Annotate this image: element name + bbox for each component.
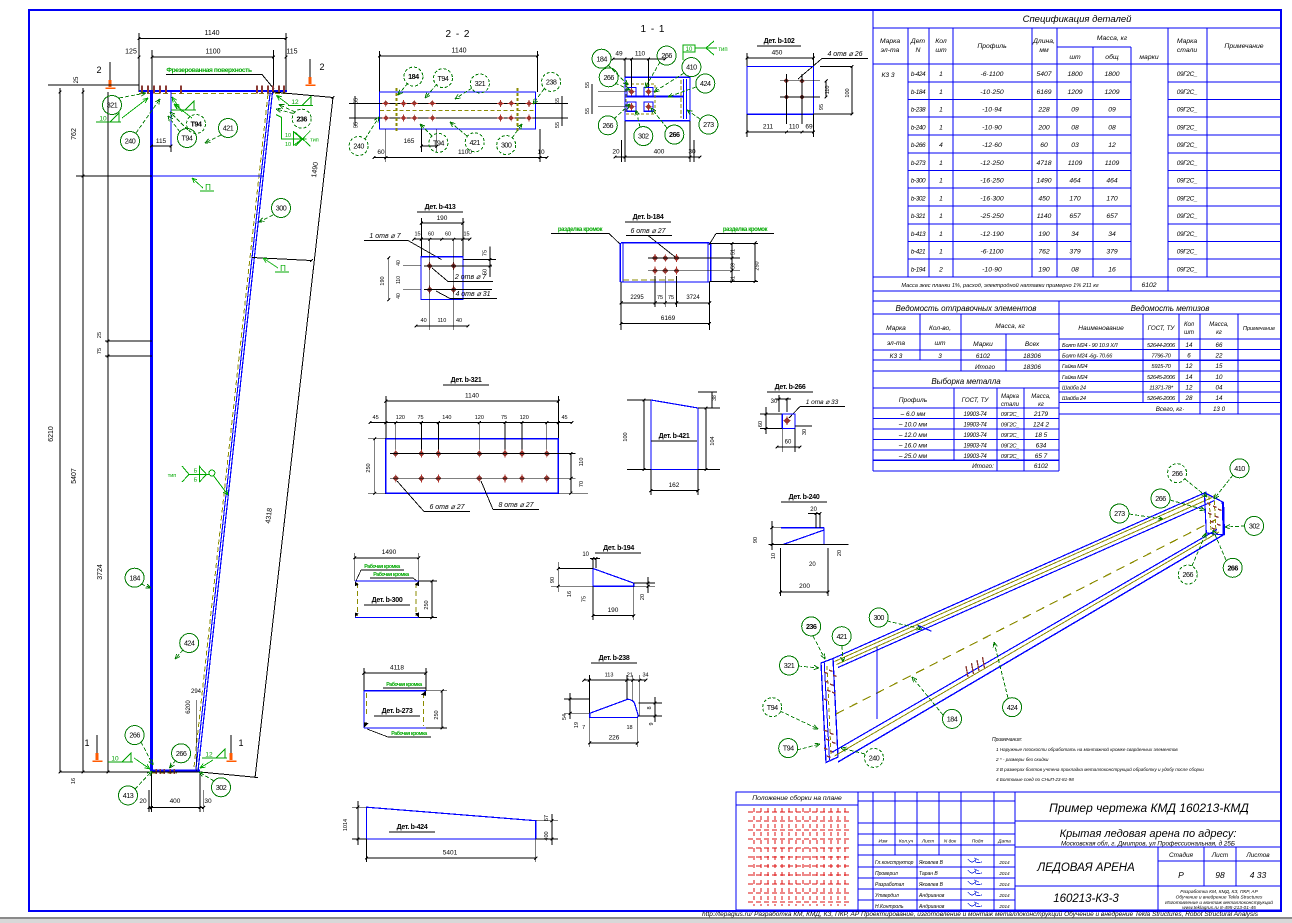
svg-text:2179: 2179 — [1033, 411, 1049, 418]
section 2-2 dim 1140 — [380, 55, 538, 57]
detail b-273 dim 4118 — [364, 672, 426, 674]
svg-text:Примечание: Примечание — [1243, 326, 1275, 332]
detail b-413 right dims 75/50 — [463, 259, 496, 261]
svg-text:184: 184 — [947, 715, 958, 724]
svg-text:1109: 1109 — [1105, 160, 1120, 167]
section 1-1 left 55/55 dims — [598, 91, 625, 93]
svg-text:09Г2С_: 09Г2С_ — [1177, 249, 1198, 256]
svg-text:09Г2С_: 09Г2С_ — [1001, 412, 1020, 418]
svg-text:4718: 4718 — [1036, 160, 1051, 167]
svg-text:110: 110 — [396, 276, 402, 284]
isometric callout 300 — [869, 608, 888, 627]
column callout 266 lower-mid — [172, 744, 191, 763]
svg-text:разделка кромок: разделка кромок — [558, 227, 603, 233]
svg-text:Обучение и внедрение Tekla S: Обучение и внедрение Tekla Structures — [1176, 895, 1263, 901]
svg-text:Фрезерованная поверхность: Фрезерованная поверхность — [166, 67, 252, 74]
svg-text:– 25.0 мм: – 25.0 мм — [898, 453, 928, 460]
svg-text:Подп: Подп — [972, 839, 984, 845]
stiffener extension to 1490 dim — [252, 258, 312, 261]
svg-text:Масса, кг: Масса, кг — [995, 323, 1025, 330]
svg-text:1: 1 — [939, 231, 943, 238]
svg-text:20: 20 — [612, 149, 620, 156]
svg-text:6169: 6169 — [1036, 89, 1051, 96]
svg-text:b-321: b-321 — [911, 213, 926, 220]
svg-text:Московская обл, г. Дмитров, ул: Московская обл, г. Дмитров, ул Профессио… — [1061, 840, 1235, 848]
svg-text:Спецификация деталей: Спецификация деталей — [1023, 14, 1133, 25]
svg-text:1800: 1800 — [1067, 71, 1082, 78]
svg-text:294: 294 — [191, 689, 202, 695]
svg-text:стали: стали — [1001, 402, 1020, 408]
svg-text:Дет. b-413: Дет. b-413 — [425, 204, 456, 211]
svg-text:Гл.конструктор: Гл.конструктор — [875, 860, 914, 866]
svg-text:6 отв ⌀ 27: 6 отв ⌀ 27 — [429, 504, 465, 511]
svg-text:300: 300 — [501, 141, 512, 150]
svg-text:Разработка КМ, КМД, КЗ, ПКР, А: Разработка КМ, КМД, КЗ, ПКР, АР — [1180, 889, 1258, 895]
upper stiffener line — [76, 175, 152, 177]
svg-text:266: 266 — [603, 121, 614, 130]
svg-text:шт: шт — [1069, 54, 1081, 61]
svg-text:21: 21 — [627, 673, 633, 679]
svg-text:400: 400 — [544, 831, 550, 840]
detail b-184 bolts — [652, 255, 658, 261]
svg-text:11371-78*: 11371-78* — [1149, 385, 1174, 391]
isometric right callouts — [1168, 464, 1187, 483]
svg-text:300: 300 — [276, 204, 287, 213]
column callout 240 — [121, 132, 140, 151]
svg-text:1: 1 — [84, 738, 89, 748]
svg-text:шт: шт — [935, 47, 947, 54]
svg-text:200: 200 — [799, 583, 810, 590]
svg-text:Стадия: Стадия — [1169, 851, 1194, 859]
svg-text:104: 104 — [710, 436, 716, 445]
svg-text:1: 1 — [939, 160, 943, 167]
svg-text:Дет. b-321: Дет. b-321 — [451, 377, 482, 384]
svg-text:6 отв ⌀ 27: 6 отв ⌀ 27 — [630, 228, 666, 235]
svg-text:-12·250: -12·250 — [980, 160, 1004, 167]
svg-text:Разработал: Разработал — [875, 882, 904, 888]
table Ведомость отправочных элементов — [873, 291, 1281, 471]
svg-text:162: 162 — [669, 482, 680, 489]
svg-text:55: 55 — [555, 122, 561, 128]
svg-text:70: 70 — [579, 481, 585, 487]
svg-text:200: 200 — [1037, 124, 1050, 131]
svg-text:34: 34 — [642, 673, 648, 679]
svg-text:266: 266 — [1155, 494, 1166, 503]
svg-text:3 В размерах болтов учтена пр: 3 В размерах болтов учтена прокладка мет… — [996, 766, 1204, 772]
base plate — [152, 770, 201, 772]
svg-text:b-421: b-421 — [911, 249, 926, 256]
svg-text:Шайба 24: Шайба 24 — [1062, 395, 1086, 402]
svg-text:228: 228 — [1037, 107, 1050, 114]
svg-text:09Г2С_: 09Г2С_ — [1177, 71, 1198, 78]
svg-text:1: 1 — [939, 178, 943, 185]
svg-text:55: 55 — [354, 122, 360, 128]
svg-text:184: 184 — [408, 72, 419, 81]
svg-text:– 6.0 мм: – 6.0 мм — [900, 411, 926, 418]
svg-text:59: 59 — [731, 263, 737, 269]
detail b-300 dim 250 — [431, 581, 433, 618]
detail b-266 dims — [760, 413, 782, 415]
svg-text:6102: 6102 — [1141, 282, 1156, 289]
svg-text:Итого:: Итого: — [972, 463, 994, 470]
svg-text:10: 10 — [582, 552, 589, 558]
svg-text:421: 421 — [836, 632, 847, 641]
svg-text:13 0: 13 0 — [1213, 406, 1226, 413]
svg-text:400: 400 — [170, 798, 181, 805]
svg-text:-16·300: -16·300 — [980, 195, 1004, 202]
svg-text:ГОСТ, ТУ: ГОСТ, ТУ — [962, 397, 990, 404]
svg-text:20: 20 — [837, 550, 843, 556]
svg-text:100: 100 — [845, 88, 851, 97]
svg-text:45: 45 — [373, 415, 379, 421]
svg-text:190: 190 — [437, 215, 448, 222]
svg-text:Т94: Т94 — [438, 74, 449, 83]
svg-text:10: 10 — [686, 47, 693, 53]
detail b-424 dims — [352, 806, 366, 808]
svg-text:60: 60 — [785, 440, 792, 446]
svg-text:38: 38 — [712, 395, 718, 401]
svg-text:250: 250 — [366, 463, 372, 472]
svg-text:75: 75 — [501, 415, 507, 421]
svg-text:12: 12 — [205, 752, 213, 759]
svg-text:тип: тип — [310, 138, 319, 144]
column callout 236 top right — [292, 109, 311, 128]
svg-text:51: 51 — [731, 276, 737, 282]
detail b-321 left dim 250 — [374, 439, 376, 494]
detail b-238 plate — [590, 699, 639, 717]
svg-text:разделка кромок: разделка кромок — [723, 227, 768, 233]
svg-text:10: 10 — [1216, 374, 1223, 381]
svg-text:120: 120 — [396, 415, 405, 421]
svg-text:40: 40 — [396, 293, 402, 299]
detail b-102 dim 450 — [747, 57, 814, 59]
svg-text:2014: 2014 — [998, 882, 1010, 887]
svg-text:240: 240 — [869, 754, 880, 763]
svg-text:-10·94: -10·94 — [982, 107, 1002, 114]
svg-text:1140: 1140 — [465, 393, 479, 400]
svg-text:N док: N док — [944, 839, 957, 845]
svg-text:Ведомость метизов: Ведомость метизов — [1131, 304, 1210, 313]
svg-text:http://tepagius.ru/ Разработк: http://tepagius.ru/ Разработка КМ, КМД, … — [702, 910, 1259, 918]
svg-text:762: 762 — [71, 128, 78, 140]
svg-text:266: 266 — [603, 73, 614, 82]
svg-text:Выборка металла: Выборка металла — [931, 377, 1001, 386]
svg-text:40: 40 — [421, 318, 427, 324]
column weld 10/10 tip symbol — [276, 115, 311, 147]
column callout 184 — [125, 568, 144, 587]
svg-text:Т94: Т94 — [182, 134, 193, 143]
svg-text:Рабочая кромка: Рабочая кромка — [364, 563, 400, 570]
svg-text:66: 66 — [1216, 342, 1223, 349]
section 2-2 bolt row lines — [372, 102, 545, 104]
svg-text:6200: 6200 — [186, 700, 192, 714]
section mark 1 left — [96, 735, 98, 753]
detail b-321 right dims 110/70 — [570, 454, 572, 494]
detail b-424 plate — [366, 807, 535, 839]
svg-text:09Г2С_: 09Г2С_ — [1177, 160, 1198, 167]
svg-text:20: 20 — [809, 562, 816, 568]
svg-text:12: 12 — [1186, 384, 1193, 391]
section 2-2 vertical weld seams — [396, 88, 398, 133]
isometric callout 184 — [943, 709, 962, 728]
svg-text:ЛЕДОВАЯ АРЕНА: ЛЕДОВАЯ АРЕНА — [1036, 862, 1135, 874]
svg-text:75: 75 — [668, 295, 674, 301]
svg-text:321: 321 — [475, 79, 486, 88]
svg-text:08: 08 — [1071, 266, 1079, 273]
svg-text:4 отв ⌀ 26: 4 отв ⌀ 26 — [827, 51, 862, 58]
table Выборка металла — [873, 388, 1059, 471]
svg-text:1209: 1209 — [1067, 89, 1082, 96]
svg-text:98: 98 — [1215, 870, 1225, 880]
svg-text:19: 19 — [574, 722, 580, 728]
top plate of column — [139, 90, 287, 92]
svg-text:09Г2С_: 09Г2С_ — [1177, 124, 1198, 131]
svg-text:7796-70: 7796-70 — [1151, 354, 1171, 360]
svg-text:7: 7 — [582, 725, 585, 731]
svg-text:1014: 1014 — [343, 819, 349, 831]
section 2-2 right 55/55 dims — [536, 102, 568, 104]
svg-text:273: 273 — [1114, 509, 1125, 518]
svg-text:110: 110 — [789, 124, 800, 131]
svg-text:12: 12 — [1108, 142, 1116, 149]
column callout 424 — [180, 634, 199, 653]
svg-text:1209: 1209 — [1104, 89, 1119, 96]
svg-text:Рабочая кромка: Рабочая кромка — [386, 681, 422, 688]
svg-text:8: 8 — [647, 706, 653, 709]
svg-text:30: 30 — [771, 399, 778, 405]
svg-text:1: 1 — [939, 124, 943, 131]
isometric left end plate welds and bolts — [827, 666, 831, 754]
svg-text:2295: 2295 — [630, 295, 644, 301]
svg-text:b-184: b-184 — [911, 89, 926, 96]
svg-text:14: 14 — [1186, 342, 1193, 349]
isometric bottom chord lines — [838, 535, 1224, 763]
svg-text:Яковлев В: Яковлев В — [918, 860, 944, 866]
column callout 413 — [119, 786, 138, 805]
svg-text:75: 75 — [417, 415, 423, 421]
svg-text:4: 4 — [939, 142, 943, 149]
svg-text:52646-2006: 52646-2006 — [1147, 396, 1176, 402]
svg-text:55: 55 — [585, 108, 591, 114]
svg-text:184: 184 — [596, 54, 607, 63]
svg-text:Марка: Марка — [1001, 394, 1020, 400]
svg-text:Наименование: Наименование — [1078, 325, 1124, 332]
svg-text:-10·250: -10·250 — [980, 89, 1004, 96]
detail b-184 plate — [621, 242, 710, 244]
section 2-2 flange plate — [380, 92, 536, 129]
svg-text:30: 30 — [802, 429, 808, 435]
svg-text:52644-2006: 52644-2006 — [1147, 343, 1176, 349]
svg-text:8 отв ⌀ 27: 8 отв ⌀ 27 — [498, 502, 534, 509]
column weld Б — [185, 101, 194, 110]
svg-text:Т94: Т94 — [767, 703, 778, 712]
right flange tapered — [198, 92, 273, 771]
vertical dim line 3724 with 75/25 marks — [107, 92, 109, 772]
svg-text:Марка: Марка — [886, 325, 906, 332]
detail b-413 left dims 190/40/110/40 — [388, 258, 390, 300]
svg-text:Кол-во,: Кол-во, — [929, 325, 951, 332]
svg-text:общ: общ — [1105, 53, 1119, 61]
svg-text:Дет. b-266: Дет. b-266 — [775, 384, 806, 391]
svg-text:Кол.уч: Кол.уч — [899, 839, 914, 845]
base bottom dims 20/400/30 — [150, 773, 152, 812]
svg-text:190: 190 — [1038, 266, 1050, 273]
svg-text:10: 10 — [537, 149, 545, 156]
detail b-273 dim 250 — [441, 691, 443, 728]
svg-text:Итого: Итого — [975, 364, 995, 371]
svg-text:5407: 5407 — [1036, 71, 1051, 78]
svg-text:45: 45 — [561, 415, 567, 421]
svg-text:10: 10 — [99, 116, 107, 123]
svg-text:6169: 6169 — [661, 315, 676, 322]
svg-text:-16·250: -16·250 — [980, 178, 1004, 185]
svg-text:421: 421 — [469, 138, 480, 147]
svg-text:75: 75 — [483, 250, 489, 256]
svg-text:14: 14 — [1216, 395, 1223, 402]
column callout 302 — [212, 778, 231, 797]
section 1-1 web band — [625, 95, 683, 97]
svg-text:52645-2006: 52645-2006 — [1147, 375, 1176, 381]
svg-text:240: 240 — [125, 137, 136, 146]
svg-text:10: 10 — [285, 133, 291, 139]
svg-text:Т94: Т94 — [433, 139, 444, 148]
column elevation dimension row 125/1100/115 — [152, 56, 273, 58]
isometric right end plate — [1204, 493, 1223, 535]
svg-text:Дет. b-300: Дет. b-300 — [372, 597, 403, 604]
svg-text:110: 110 — [635, 51, 646, 58]
svg-text:60: 60 — [758, 421, 764, 427]
column elevation top dimension 1140 — [139, 38, 286, 40]
svg-text:1 отв ⌀ 7: 1 отв ⌀ 7 — [369, 233, 401, 240]
svg-text:12: 12 — [291, 99, 299, 106]
svg-text:184: 184 — [129, 573, 140, 582]
svg-text:– 10.0 мм: – 10.0 мм — [898, 421, 928, 428]
svg-text:Марки: Марки — [973, 341, 993, 348]
svg-text:40: 40 — [396, 260, 402, 266]
svg-text:302: 302 — [216, 783, 227, 792]
svg-text:115: 115 — [156, 138, 167, 145]
svg-text:Яковлев В: Яковлев В — [918, 882, 944, 888]
svg-text:18 5: 18 5 — [1035, 432, 1048, 439]
detail b-413 dims 15/60/60/15 — [414, 238, 470, 240]
svg-text:15: 15 — [414, 232, 420, 238]
svg-text:65 7: 65 7 — [1035, 453, 1048, 460]
detail b-421 dims — [643, 400, 645, 470]
svg-text:Лист: Лист — [1211, 852, 1229, 859]
svg-text:236: 236 — [806, 622, 817, 631]
svg-text:424: 424 — [700, 79, 711, 88]
svg-text:413: 413 — [123, 791, 134, 800]
detail b-240 plate — [781, 527, 824, 529]
svg-text:-10·90: -10·90 — [982, 124, 1002, 131]
column weld 12 base — [216, 749, 225, 758]
detail b-321 bolts — [395, 423, 397, 454]
svg-text:421: 421 — [223, 124, 234, 133]
svg-text:170: 170 — [1069, 195, 1081, 202]
svg-text:1140: 1140 — [451, 48, 466, 55]
svg-text:1 - 1: 1 - 1 — [640, 24, 665, 35]
svg-text:Дет. b-273: Дет. b-273 — [382, 708, 413, 715]
svg-text:19903-74: 19903-74 — [964, 412, 988, 418]
svg-text:124 2: 124 2 — [1033, 421, 1049, 428]
svg-text:b-413: b-413 — [911, 231, 926, 238]
svg-text:190: 190 — [1038, 231, 1050, 238]
top plate bolts — [141, 86, 143, 94]
column weld 10 left top — [110, 113, 119, 122]
column callout 421 — [219, 119, 238, 138]
svg-text:Положение сборки на плане: Положение сборки на плане — [752, 794, 842, 802]
svg-text:211: 211 — [763, 124, 774, 131]
svg-text:-6·1100: -6·1100 — [981, 249, 1004, 256]
section 1-1 stiffener end — [683, 79, 685, 119]
svg-text:Примечания:: Примечания: — [992, 737, 1023, 743]
svg-text:Масса зкес планки 1%, расход,: Масса зкес планки 1%, расход, электродно… — [901, 282, 1099, 289]
detail b-413 bolts — [427, 263, 433, 269]
section 2-2 dashed callouts — [404, 67, 423, 86]
svg-text:Р: Р — [1178, 870, 1184, 880]
svg-text:1100: 1100 — [205, 49, 220, 56]
svg-text:стали: стали — [1177, 47, 1198, 54]
svg-text:Андрианов: Андрианов — [918, 904, 945, 910]
svg-text:60: 60 — [428, 232, 434, 238]
svg-text:25: 25 — [74, 76, 80, 83]
svg-text:b-424: b-424 — [911, 71, 926, 78]
svg-text:b-302: b-302 — [911, 195, 926, 202]
svg-text:Т94: Т94 — [191, 120, 202, 129]
svg-text:410: 410 — [686, 63, 697, 72]
svg-text:Дет. b-424: Дет. b-424 — [397, 824, 428, 831]
svg-text:Проверил: Проверил — [875, 871, 898, 877]
svg-text:762: 762 — [1038, 249, 1050, 256]
svg-text:15: 15 — [463, 232, 469, 238]
svg-text:4 Болтовые соед по СНиП-23-81: 4 Болтовые соед по СНиП-23-81-98 — [996, 777, 1074, 782]
svg-text:16: 16 — [71, 778, 77, 784]
detail b-238 bottom dim 226 — [590, 742, 638, 744]
svg-text:266: 266 — [129, 731, 140, 740]
svg-text:2 отв ⌀ 7: 2 отв ⌀ 7 — [454, 274, 487, 281]
detail b-184 right dims 51/59/51/250 — [710, 243, 758, 245]
svg-text:1140: 1140 — [204, 30, 219, 37]
svg-text:410: 410 — [1234, 464, 1245, 473]
svg-text:Дет. b-240: Дет. b-240 — [789, 494, 820, 501]
svg-text:464: 464 — [1106, 178, 1118, 185]
isometric top chord lines — [833, 492, 1207, 659]
svg-text:90: 90 — [550, 577, 556, 583]
svg-text:09Г2С_: 09Г2С_ — [1177, 178, 1198, 185]
svg-text:19903-74: 19903-74 — [964, 433, 988, 439]
svg-text:Рабочая кромка: Рабочая кромка — [391, 730, 427, 737]
svg-text:190: 190 — [380, 276, 386, 285]
dim 115 top web — [152, 145, 172, 147]
svg-text:1140: 1140 — [1037, 213, 1052, 220]
svg-text:657: 657 — [1106, 213, 1118, 220]
svg-text:30: 30 — [204, 798, 212, 805]
svg-text:Масса,: Масса, — [1209, 322, 1228, 328]
svg-text:3724: 3724 — [97, 564, 104, 580]
svg-text:Всех: Всех — [1025, 341, 1040, 348]
svg-text:Болт М24 - 90 10.9 ХЛ: Болт М24 - 90 10.9 ХЛ — [1062, 343, 1118, 349]
svg-text:424: 424 — [1007, 703, 1018, 712]
section 1-1 outer plate — [625, 77, 690, 120]
svg-text:1: 1 — [238, 738, 243, 748]
svg-text:Б: Б — [194, 478, 198, 484]
svg-text:1 отв ⌀ 33: 1 отв ⌀ 33 — [806, 399, 839, 406]
column callout T94 bold — [187, 115, 206, 134]
section 2-2 left 55/55 dims — [349, 102, 372, 104]
svg-text:424: 424 — [184, 639, 195, 648]
svg-text:379: 379 — [1106, 249, 1118, 256]
svg-text:250: 250 — [434, 710, 440, 719]
